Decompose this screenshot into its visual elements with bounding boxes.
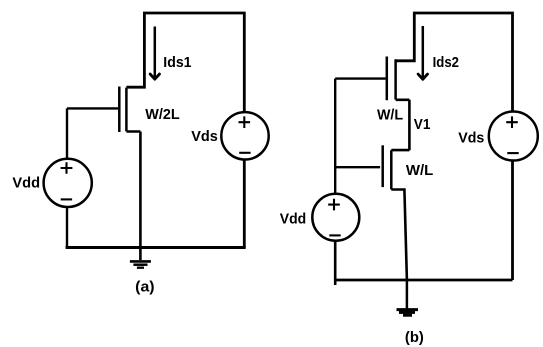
svg-text:W/2L: W/2L (145, 106, 179, 123)
svg-text:W/L: W/L (377, 106, 403, 123)
svg-text:W/L: W/L (406, 162, 433, 179)
svg-text:(a): (a) (135, 278, 154, 295)
svg-text:Ids2: Ids2 (433, 54, 459, 71)
svg-text:Vdd: Vdd (280, 210, 306, 227)
svg-text:Vds: Vds (458, 129, 484, 146)
svg-text:Vds: Vds (191, 128, 218, 145)
svg-text:Ids1: Ids1 (163, 54, 191, 71)
svg-text:Vdd: Vdd (12, 175, 40, 192)
svg-text:(b): (b) (405, 329, 424, 346)
svg-text:V1: V1 (414, 116, 431, 133)
